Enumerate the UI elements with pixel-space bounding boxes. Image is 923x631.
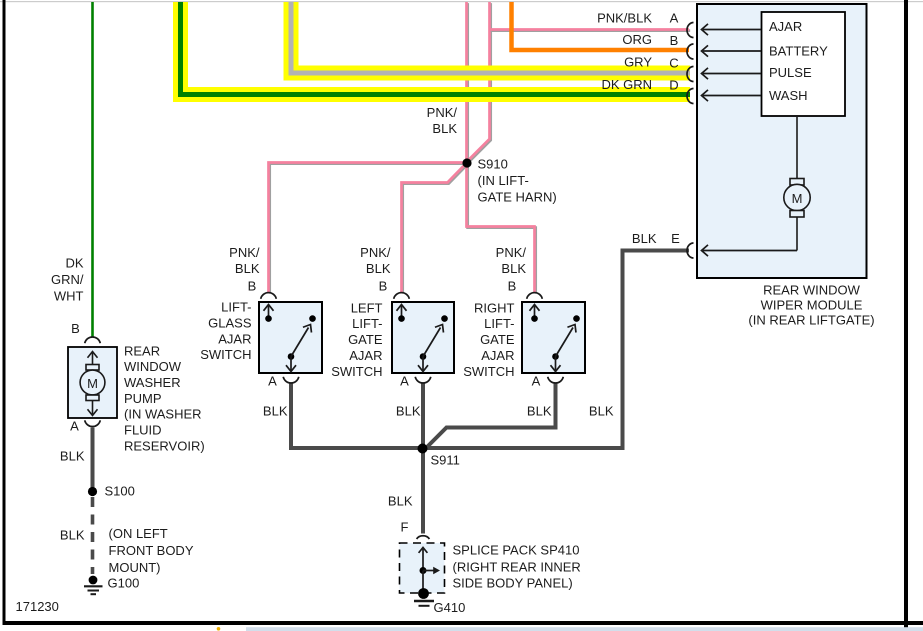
svg-text:REAR: REAR	[124, 343, 160, 358]
wire PNK/BLK S910 to left lift-gate ajar switch (shadow)	[403, 164, 468, 294]
svg-text:F: F	[401, 520, 409, 535]
svg-text:FRONT BODY: FRONT BODY	[109, 543, 194, 558]
svg-text:WIPER MODULE: WIPER MODULE	[761, 298, 863, 313]
lift-glass ajar switch box	[259, 302, 322, 373]
pin D arrow	[702, 90, 762, 101]
wire BLK S911 to splice pack F	[421, 449, 425, 534]
connector arc pin E	[687, 243, 693, 258]
svg-text:SIDE BODY PANEL): SIDE BODY PANEL)	[453, 576, 573, 591]
svg-text:S911: S911	[431, 453, 460, 468]
wire PNK/BLK vertical to S910 (shadow)	[466, 3, 469, 163]
svg-text:LIFT-: LIFT-	[484, 316, 514, 331]
wire DK GRN (yellow jacket) to module pin D	[181, 2, 691, 95]
wire ORG to module pin B	[512, 2, 690, 50]
svg-text:A: A	[400, 374, 409, 389]
svg-text:PNK/BLK: PNK/BLK	[597, 11, 652, 26]
connector arc lift-glass switch pin B	[261, 293, 277, 299]
svg-text:PULSE: PULSE	[769, 65, 812, 80]
splice S911	[418, 444, 428, 454]
left lift-gate ajar switch box	[392, 302, 454, 373]
wire BLK left lift-gate switch to S911	[421, 383, 425, 449]
wiper motor M1 lead to pin E	[796, 217, 798, 251]
connector arc washer pump pin B	[85, 337, 101, 343]
pin C arrow	[702, 68, 762, 79]
svg-text:S910: S910	[478, 157, 508, 172]
right lift-gate ajar switch internals	[530, 305, 580, 372]
svg-text:BLK: BLK	[632, 231, 657, 246]
wire PNK/BLK pin A net vertical+diagonal (shadow)	[470, 3, 491, 161]
connector arc pin C	[687, 67, 693, 82]
wire PNK/BLK vertical to S910	[465, 2, 468, 162]
connector arc lift-glass switch pin A	[283, 377, 299, 383]
svg-text:BLK: BLK	[60, 528, 85, 543]
splice S910	[462, 158, 471, 167]
rear window wiper module box	[697, 4, 867, 278]
svg-text:PNK/: PNK/	[360, 245, 391, 260]
svg-text:WINDOW: WINDOW	[124, 359, 182, 374]
svg-text:LIFT-: LIFT-	[221, 300, 251, 315]
wire BLK dashed S100 to G100	[91, 497, 95, 574]
svg-text:GATE HARN): GATE HARN)	[478, 190, 557, 205]
svg-text:AJAR: AJAR	[218, 331, 251, 346]
connector arc pin B	[687, 44, 693, 59]
svg-text:WASHER: WASHER	[124, 375, 181, 390]
ground G100	[84, 576, 103, 595]
svg-text:LEFT: LEFT	[351, 300, 383, 315]
svg-text:DK GRN: DK GRN	[601, 77, 652, 92]
svg-text:BLK: BLK	[527, 404, 552, 419]
svg-text:PNK/: PNK/	[496, 245, 527, 260]
svg-text:ORG: ORG	[622, 32, 652, 47]
connector arc left lift-gate switch pin B	[394, 293, 410, 299]
connector arc pin A	[687, 23, 693, 38]
left lift-gate ajar switch internals	[397, 305, 448, 372]
svg-text:PNK/: PNK/	[427, 105, 458, 120]
connector arc left lift-gate switch pin A	[415, 377, 431, 383]
wire PNK/BLK branch to module pin A (shadow)	[491, 29, 691, 32]
svg-text:RIGHT: RIGHT	[474, 300, 515, 315]
svg-text:WASH: WASH	[769, 88, 808, 103]
connector arc pin D	[687, 89, 693, 104]
svg-text:D: D	[669, 77, 678, 92]
wire DK GRN core	[181, 2, 691, 95]
svg-text:A: A	[532, 374, 541, 389]
svg-text:MOUNT): MOUNT)	[109, 560, 161, 575]
svg-text:G410: G410	[434, 600, 466, 615]
svg-text:SWITCH: SWITCH	[463, 364, 514, 379]
svg-text:SWITCH: SWITCH	[331, 364, 382, 379]
connector arc right lift-gate switch pin B	[527, 293, 543, 299]
splice S100	[88, 487, 97, 496]
svg-text:(IN REAR LIFTGATE): (IN REAR LIFTGATE)	[748, 313, 874, 328]
svg-text:A: A	[268, 374, 277, 389]
wire BLK switch ground bus to module pin E	[291, 251, 689, 449]
wiper motor M1	[784, 179, 810, 218]
rear window washer pump box	[68, 347, 117, 418]
svg-text:SWITCH: SWITCH	[200, 347, 251, 362]
svg-text:(IN LIFT-: (IN LIFT-	[478, 173, 529, 188]
svg-text:A: A	[670, 11, 679, 26]
svg-text:RESERVOIR): RESERVOIR)	[124, 438, 205, 453]
svg-text:B: B	[248, 279, 257, 294]
svg-text:LIFT-: LIFT-	[352, 316, 382, 331]
connector arc washer pump pin A	[85, 420, 101, 426]
wire PNK/BLK pin A net vertical+diagonal	[469, 2, 490, 160]
wiper module inner terminal box	[762, 12, 846, 116]
pin A arrow	[702, 24, 762, 35]
wire PNK/BLK S910 to lift-glass ajar switch	[269, 163, 467, 293]
lift-glass ajar switch internals	[264, 305, 316, 372]
svg-text:AJAR: AJAR	[769, 19, 802, 34]
svg-text:171230: 171230	[16, 599, 59, 614]
svg-text:GRN/: GRN/	[51, 272, 84, 287]
svg-text:GRY: GRY	[624, 55, 652, 70]
svg-text:BLK: BLK	[501, 261, 526, 276]
svg-text:(ON LEFT: (ON LEFT	[109, 526, 168, 541]
wire GRY (yellow jacket) to module pin C	[291, 2, 690, 73]
wire PNK/BLK S910 to right lift-gate ajar switch	[467, 163, 535, 293]
svg-text:AJAR: AJAR	[349, 348, 382, 363]
wire BLK washer pump to S100	[91, 428, 95, 489]
svg-text:BLK: BLK	[396, 404, 421, 419]
svg-text:BLK: BLK	[589, 404, 614, 419]
svg-text:S100: S100	[105, 484, 135, 499]
svg-text:WHT: WHT	[54, 289, 84, 304]
wire DK GRN/WHT to washer pump	[91, 2, 94, 337]
pin B arrow	[702, 45, 762, 56]
svg-text:GATE: GATE	[348, 332, 383, 347]
svg-text:G100: G100	[108, 576, 140, 591]
svg-text:GLASS: GLASS	[208, 315, 252, 330]
svg-text:(RIGHT REAR INNER: (RIGHT REAR INNER	[453, 559, 581, 574]
svg-text:BLK: BLK	[263, 404, 288, 419]
svg-text:(IN WASHER: (IN WASHER	[124, 407, 202, 422]
right lift-gate ajar switch box	[522, 302, 585, 373]
connector arc right lift-gate switch pin A	[548, 377, 564, 383]
connector arc splice pack pin F	[417, 536, 430, 539]
wire BLK right lift-gate switch to S911	[427, 383, 556, 448]
svg-text:BATTERY: BATTERY	[769, 43, 828, 58]
wiper motor M1 lead from terminal box	[796, 116, 798, 179]
svg-text:M: M	[87, 376, 98, 391]
wire PNK/BLK branch to module pin A	[490, 28, 690, 31]
svg-text:FLUID: FLUID	[124, 423, 162, 438]
svg-text:SPLICE PACK SP410: SPLICE PACK SP410	[453, 543, 580, 558]
pin E arrow	[702, 245, 798, 256]
wire PNK/BLK S910 to right lift-gate ajar switch (shadow)	[468, 164, 536, 294]
svg-text:C: C	[669, 55, 678, 70]
splice pack SP410 dashed box	[400, 543, 445, 593]
svg-text:E: E	[671, 231, 680, 246]
svg-text:BLK: BLK	[388, 494, 413, 509]
splice pack SP410 internals	[419, 548, 440, 593]
svg-text:B: B	[508, 279, 517, 294]
ground G410	[414, 588, 434, 606]
washer pump motor internals	[80, 352, 105, 416]
svg-text:REAR WINDOW: REAR WINDOW	[763, 283, 861, 298]
svg-text:B: B	[71, 321, 80, 336]
wire PNK/BLK S910 to lift-glass ajar switch (shadow)	[270, 164, 468, 294]
svg-text:BLK: BLK	[235, 261, 260, 276]
svg-text:A: A	[70, 419, 79, 434]
svg-text:PNK/: PNK/	[229, 245, 260, 260]
wire GRY core	[291, 2, 690, 73]
svg-text:BLK: BLK	[60, 449, 85, 464]
wire PNK/BLK S910 to left lift-gate ajar switch	[402, 163, 467, 293]
svg-text:BLK: BLK	[432, 121, 457, 136]
svg-text:BLK: BLK	[366, 261, 391, 276]
svg-text:B: B	[670, 33, 679, 48]
svg-text:AJAR: AJAR	[481, 348, 514, 363]
svg-text:PUMP: PUMP	[124, 391, 162, 406]
svg-text:DK: DK	[65, 256, 83, 271]
svg-text:M: M	[792, 191, 803, 206]
svg-text:GATE: GATE	[480, 332, 515, 347]
svg-text:B: B	[379, 279, 388, 294]
